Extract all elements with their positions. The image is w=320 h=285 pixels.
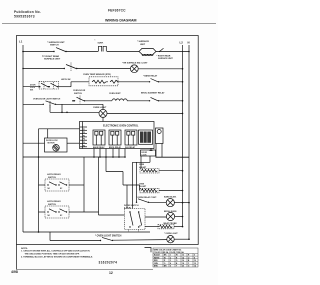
svg-text:2: 2 <box>170 257 171 259</box>
svg-text:N: N <box>188 41 190 45</box>
svg-text:1: 1 <box>170 255 171 257</box>
svg-text:LATCH RELAY: LATCH RELAY <box>47 173 61 176</box>
svg-text:SURF.: SURF. <box>98 43 104 45</box>
svg-text:OVEN VENT: OVEN VENT <box>109 93 121 95</box>
svg-text:LOCK: LOCK <box>142 155 148 157</box>
svg-text:BLACK: BLACK <box>154 254 161 257</box>
svg-text:THE UNLOCKED POSITION. TIME OF: THE UNLOCKED POSITION. TIME OF DAY SHOWN… <box>25 252 80 255</box>
svg-text:BAKE RELAY: BAKE RELAY <box>93 146 105 149</box>
svg-text:FEF367CC: FEF367CC <box>108 9 126 13</box>
svg-text:* OVEN LIGHT: * OVEN LIGHT <box>164 233 178 235</box>
svg-text:12: 12 <box>194 263 196 265</box>
svg-text:* OVEN RELAY CONT.: * OVEN RELAY CONT. <box>136 196 157 199</box>
svg-text:P3: P3 <box>83 135 85 137</box>
svg-text:16: 16 <box>182 260 184 262</box>
svg-text:SWITCH: SWITCH <box>50 45 59 47</box>
svg-text:MOTOR: MOTOR <box>48 143 56 145</box>
svg-text:MEAT PROBE: MEAT PROBE <box>164 222 178 225</box>
svg-text:OVEN TEMP SENSOR (RTD): OVEN TEMP SENSOR (RTD) <box>83 74 111 76</box>
svg-text:SURFACE UNIT: SURFACE UNIT <box>158 57 174 60</box>
svg-text:ELECTRONIC OVEN CONTROL: ELECTRONIC OVEN CONTROL <box>103 124 139 127</box>
svg-text:HI-LIMIT: HI-LIMIT <box>139 186 147 188</box>
svg-text:L2: L2 <box>180 41 184 45</box>
svg-text:4/98: 4/98 <box>11 270 18 274</box>
svg-text:6: 6 <box>194 255 195 257</box>
svg-text:BROIL ELEMENT RELAY: BROIL ELEMENT RELAY <box>141 91 165 94</box>
svg-text:OVEN DOOR LIGHT SWITCH: OVEN DOOR LIGHT SWITCH <box>33 99 61 101</box>
svg-text:8: 8 <box>194 257 195 259</box>
svg-text:5995353673: 5995353673 <box>14 14 35 18</box>
svg-text:SWITCH: SWITCH <box>48 204 56 206</box>
svg-text:* BAKE RELAY: * BAKE RELAY <box>143 74 158 77</box>
svg-text:20: 20 <box>182 266 184 268</box>
svg-text:L1: L1 <box>19 40 23 44</box>
svg-text:* SURFACE: * SURFACE <box>137 40 149 43</box>
svg-text:WHITE: WHITE <box>154 257 160 259</box>
svg-text:2. TERMINAL BLOCK LETTER ID S: 2. TERMINAL BLOCK LETTER ID SHOWN ON COM… <box>21 255 93 258</box>
svg-text:LATCH RELAY: LATCH RELAY <box>47 200 61 203</box>
svg-text:18: 18 <box>182 263 184 265</box>
svg-text:10: 10 <box>194 260 196 262</box>
svg-text:* OVEN LIGHT SWITCH: * OVEN LIGHT SWITCH <box>95 235 122 238</box>
svg-text:5: 5 <box>170 266 171 268</box>
svg-text:12: 12 <box>182 255 184 257</box>
svg-text:12: 12 <box>109 271 113 275</box>
svg-text:BAKE ELEM.: BAKE ELEM. <box>164 195 177 198</box>
svg-text:DLB RELAY: DLB RELAY <box>125 146 136 149</box>
svg-text:BROIL RELAY: BROIL RELAY <box>109 146 122 149</box>
svg-text:P1: P1 <box>83 129 85 131</box>
svg-text:(LOCK): (LOCK) <box>124 208 131 210</box>
svg-text:SWITCH: SWITCH <box>74 93 82 95</box>
svg-text:4: 4 <box>170 262 171 265</box>
svg-text:3: 3 <box>170 260 171 262</box>
svg-text:UNIT: UNIT <box>140 44 146 46</box>
svg-text:* RIGHT REAR: * RIGHT REAR <box>157 55 171 58</box>
svg-text:LATCH SW.: LATCH SW. <box>61 78 71 81</box>
svg-text:SW.: SW. <box>30 89 34 91</box>
svg-text:WIRING DIAGRAM: WIRING DIAGRAM <box>105 19 137 23</box>
svg-text:SWITCH: SWITCH <box>48 177 56 179</box>
svg-text:P5: P5 <box>83 142 85 144</box>
svg-text:HI-LIMIT: HI-LIMIT <box>139 167 147 169</box>
svg-text:* RR SURFACE IND. LIGHT: * RR SURFACE IND. LIGHT <box>122 62 148 65</box>
svg-text:14: 14 <box>182 256 184 259</box>
svg-text:TC RIGHT REAR: TC RIGHT REAR <box>42 55 60 58</box>
svg-text:SURFACE UNIT: SURFACE UNIT <box>44 58 61 61</box>
svg-text:* SURFACE UNIT: * SURFACE UNIT <box>47 41 65 44</box>
svg-text:316202074: 316202074 <box>99 261 118 265</box>
svg-text:1. CIRCUIT SHOWN WITH ALL CON: 1. CIRCUIT SHOWN WITH ALL CONTROLS OFF A… <box>21 250 90 253</box>
svg-text:14: 14 <box>194 265 196 268</box>
svg-text:P6: P6 <box>83 145 85 147</box>
svg-text:OVEN LIGHT: OVEN LIGHT <box>93 107 107 109</box>
svg-text:P2: P2 <box>83 132 85 134</box>
svg-text:NOTE:: NOTE: <box>21 248 28 250</box>
